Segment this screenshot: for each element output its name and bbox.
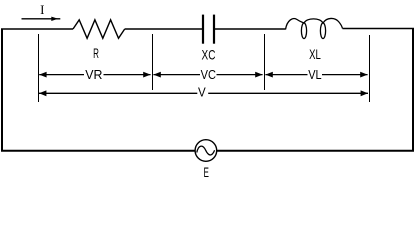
- source E (AC): [195, 140, 217, 162]
- dimension tick node B (x=152): [152, 34, 154, 90]
- wire bottom left segment: [1, 150, 195, 152]
- svg-text:E: E: [204, 165, 209, 180]
- wire right rail: [412, 29, 414, 152]
- label V: [198, 85, 206, 100]
- resistor R: [73, 20, 125, 39]
- capacitor XC: [203, 15, 214, 44]
- inductor XL: [286, 18, 343, 38]
- label XC: [202, 48, 216, 63]
- label VC: [201, 67, 216, 82]
- wire left rail: [1, 29, 3, 151]
- dimension arrow VL: [265, 72, 367, 78]
- dimension arrow VR: [39, 72, 150, 78]
- label XL: [309, 47, 321, 62]
- svg-text:XL: XL: [309, 47, 321, 62]
- label I: [40, 2, 44, 17]
- dimension arrow V: [39, 90, 368, 96]
- svg-text:VR: VR: [85, 67, 102, 82]
- dimension tick node A (x=38): [38, 34, 40, 102]
- label E: [204, 165, 209, 180]
- label VL: [308, 67, 321, 82]
- label R: [93, 46, 99, 61]
- svg-text:I: I: [40, 2, 44, 17]
- dimension tick node C (x=264): [264, 34, 266, 90]
- svg-text:VC: VC: [201, 67, 216, 82]
- wire top: left rail to resistor: [1, 28, 73, 30]
- wire top: inductor to right rail: [343, 28, 415, 30]
- dimension arrow VC: [153, 72, 262, 78]
- current arrow I: [22, 17, 61, 21]
- svg-text:R: R: [93, 46, 99, 61]
- dimension tick node D (x=369): [369, 35, 371, 102]
- svg-text:VL: VL: [308, 67, 321, 82]
- wire top: capacitor to inductor: [215, 28, 286, 30]
- svg-text:V: V: [198, 85, 206, 100]
- svg-text:XC: XC: [202, 48, 216, 63]
- wire bottom right segment: [217, 150, 414, 152]
- wire top: resistor to capacitor: [125, 28, 202, 30]
- label VR: [85, 67, 102, 82]
